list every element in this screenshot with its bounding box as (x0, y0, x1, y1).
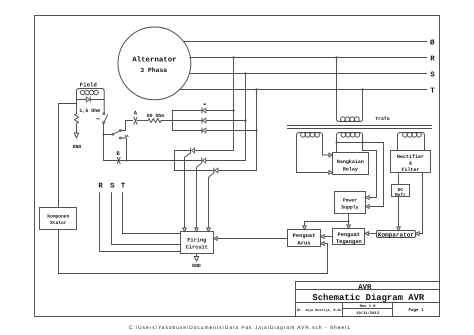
arrow arus top input (303, 226, 307, 230)
title row divider 1 (296, 289, 440, 291)
dc reference U5 box (392, 185, 410, 197)
wire bottom rail (59, 244, 328, 274)
wire rectifier right to komparator (419, 173, 422, 234)
svg-text:Komponen: Komponen (47, 214, 69, 220)
wire power supply to tegangan (348, 214, 350, 226)
svg-text:Refr: Refr (395, 192, 406, 198)
wire left bus upper (58, 104, 60, 208)
svg-text:Rectifier: Rectifier (397, 154, 424, 160)
svg-text:Relay: Relay (343, 167, 358, 173)
power supply U3 box (335, 192, 366, 214)
svg-text:Stator: Stator (50, 220, 67, 226)
arrow power supply input 2 (366, 205, 370, 209)
junction primary T (361, 88, 363, 90)
junction T drop (255, 88, 257, 90)
svg-text:B: B (116, 150, 120, 157)
junction row3 T (255, 129, 257, 131)
wire T sense to firing (123, 193, 181, 234)
wire sec2 right to power supply input 1 (363, 151, 377, 198)
wire S sense to firing (112, 193, 181, 245)
wire node A to resistor (137, 120, 148, 122)
wire komparator to penguat tegangan (369, 233, 377, 235)
arrow gate 2 into firing (195, 228, 199, 232)
svg-text:T: T (430, 87, 435, 95)
thyristor Q2 (201, 160, 202, 162)
wire diode row 3 (173, 130, 257, 132)
arrow tegangan right input (365, 232, 369, 236)
arrow power supply input 1 (366, 196, 370, 200)
wire CA lower contact to node B rail (121, 138, 126, 161)
svg-text:Supply: Supply (341, 205, 358, 211)
diode D3 (203, 118, 206, 123)
svg-text:Penguat: Penguat (293, 233, 316, 239)
wire T drop to bridge (256, 90, 258, 171)
svg-text:60 Ohm: 60 Ohm (147, 113, 165, 119)
transformer secondary 3 (398, 133, 425, 151)
wire diode row 1 (173, 110, 234, 112)
svg-text:10/11/2013: 10/11/2013 (356, 311, 380, 316)
svg-text:R: R (430, 55, 435, 63)
title block outline (296, 282, 440, 317)
svg-text:Penguat: Penguat (337, 232, 360, 238)
wire sec1 left to relay input 2 (297, 172, 329, 174)
arrow firing right input (214, 237, 218, 241)
rectifier filter U4 box (391, 151, 431, 173)
wire dc refr to komparator (398, 197, 400, 228)
svg-text:Ø: Ø (430, 38, 435, 47)
wire Q1 cathode down (174, 151, 176, 171)
wire left bus lower (58, 230, 60, 274)
svg-text:Firing: Firing (187, 238, 206, 244)
komparator U6 box (377, 231, 416, 238)
field winding L1 coil turns (80, 90, 85, 95)
wire firing input from penguat arus (217, 238, 287, 240)
wire power supply branch to arus (305, 222, 349, 226)
junction R drop (232, 56, 234, 58)
title col divider 1 (342, 303, 344, 317)
title col divider 2 (392, 303, 394, 317)
wire S drop to bridge (245, 74, 247, 161)
svg-text:Tegangan: Tegangan (336, 239, 362, 245)
arrow komparator right input (416, 232, 420, 236)
resistor 1,5 Ohm (75, 104, 79, 134)
junction CA lower on B rail (126, 160, 128, 162)
title rev divider (343, 308, 393, 310)
arrow into penguat arus lower (321, 242, 325, 246)
thyristor Q1 (175, 150, 191, 152)
svg-text:GND: GND (192, 263, 201, 269)
svg-text:&: & (409, 161, 412, 167)
wire phase T (180, 89, 427, 91)
wire CA upper contact to node A (121, 121, 132, 131)
svg-text:Field: Field (80, 82, 98, 89)
wire rectifier to dc refr (398, 173, 400, 185)
svg-text:T: T (121, 183, 126, 191)
arrow relay input 1 (329, 153, 333, 157)
svg-text:Rev 1.0: Rev 1.0 (360, 304, 377, 309)
diode D2 mark (204, 103, 206, 105)
wire junction to CA common (104, 134, 113, 136)
svg-text:Schematic Diagram AVR: Schematic Diagram AVR (312, 293, 425, 303)
wire rail to penguat arus (324, 243, 327, 245)
wire resistor to diode row 2 (161, 120, 245, 122)
wire phase R (190, 57, 426, 59)
junction row2 S (244, 119, 246, 121)
node B connector (117, 157, 120, 163)
wire R sense to firing (100, 193, 181, 252)
junction switch CA (103, 134, 105, 136)
arrow gate 1 into firing (183, 228, 187, 232)
firing circuit U1 box (181, 232, 214, 254)
title row divider 2 (296, 302, 440, 304)
resistor 60 Ohm (148, 119, 161, 123)
diode D2 (203, 108, 206, 113)
svg-text:A: A (134, 109, 138, 116)
junction primary R (335, 56, 337, 58)
svg-text:3 Phasa: 3 Phasa (140, 67, 167, 74)
arrow tegangan top input (347, 225, 351, 229)
arrow relay input 2 (329, 171, 333, 175)
relay circuit U2 box (333, 153, 369, 175)
node A connector (134, 117, 137, 124)
junction sec2 right tap (362, 142, 364, 144)
wire phase 0 (184, 41, 427, 43)
transformer secondary 1 (297, 133, 323, 173)
svg-text:Page 1: Page 1 (408, 308, 424, 313)
penguat tegangan U7 box (333, 229, 365, 245)
transformer secondary 2 (337, 133, 363, 153)
switch CA (112, 133, 114, 135)
svg-text:Komparator: Komparator (378, 232, 414, 239)
thyristor Q3 gate wire (209, 173, 214, 227)
wire diode bus (172, 111, 174, 131)
wire R drop to bridge (233, 58, 235, 151)
junction S drop (244, 72, 246, 74)
svg-text:Arus: Arus (298, 240, 311, 246)
wire tegangan to arus (324, 236, 332, 238)
junction sec2 left tap (336, 142, 338, 144)
diode D4 (203, 128, 206, 133)
junction row1 R (232, 109, 234, 111)
field winding L1 outline (77, 89, 105, 104)
wire junction down to node B rail (103, 135, 105, 161)
komponen stator box (40, 208, 77, 230)
wire sec2 tap to power supply input 2 (337, 143, 384, 207)
svg-text:Power: Power (343, 197, 358, 203)
wire field to left bus (59, 103, 77, 105)
alternator G1 circle (118, 27, 191, 100)
svg-text:Alternator: Alternator (132, 56, 176, 65)
arrow gate 3 into firing (207, 228, 211, 232)
svg-text:Rangkaian: Rangkaian (337, 159, 364, 165)
svg-text:Trafo: Trafo (375, 116, 390, 122)
svg-text:AVR: AVR (358, 284, 372, 292)
ground GND field (74, 133, 78, 138)
arrow arus right input (321, 235, 325, 239)
svg-text:S: S (430, 70, 435, 79)
svg-text:GND: GND (73, 144, 82, 150)
thyristor Q2 gate wire (197, 163, 202, 227)
transformer core (288, 125, 432, 127)
ground GND firing (194, 254, 198, 262)
svg-text:C:\Users\Yakobuse\Documents\Da: C:\Users\Yakobuse\Documents\Data Pak Jaj… (129, 325, 351, 331)
svg-text:R: R (98, 183, 103, 191)
arrow komparator top input (397, 227, 401, 231)
transformer primary winding (337, 58, 363, 122)
svg-text:sw: sw (96, 118, 100, 121)
junction ps branch (348, 221, 350, 223)
wire switch to CA junction (103, 123, 105, 134)
wire sec1 right to relay input 1 (323, 154, 329, 156)
thyristor Q1 gate wire (185, 153, 191, 227)
freewheel diode D1 (77, 99, 105, 101)
svg-text:Filter: Filter (401, 167, 419, 173)
switch SW field (103, 100, 105, 113)
penguat arus U8 box (288, 230, 321, 247)
svg-text:S: S (110, 183, 115, 191)
svg-text:Dr. Jaja Kustija, M.Sc: Dr. Jaja Kustija, M.Sc (297, 308, 342, 313)
svg-text:Circuit: Circuit (186, 245, 208, 251)
svg-text:1,5 Ohm: 1,5 Ohm (79, 108, 100, 114)
wire phase S (190, 73, 427, 75)
wire node B rail (104, 160, 201, 162)
thyristor Q3 (175, 170, 215, 172)
